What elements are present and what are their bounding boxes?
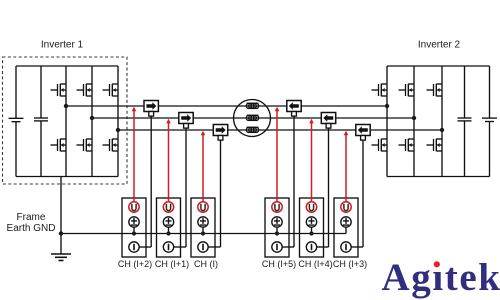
channel box CH (I+2) — [122, 198, 151, 257]
wire: CH (I+5) I terminal to probe lead — [282, 246, 294, 248]
wire: CH (I+1) I terminal to probe lead — [174, 246, 186, 248]
terminal +/- of CH (I+3) — [341, 217, 351, 227]
transistor Q1 (inv1 U high) — [51, 84, 67, 97]
terminal I of CH (I) — [198, 242, 208, 252]
voltage lead U of CH (I+3) to phase W — [344, 131, 349, 202]
wire: inverter 1 phase leg W — [117, 66, 119, 177]
junction: inv1 leg V to phase line — [90, 116, 94, 120]
svg-text:CH (I+4): CH (I+4) — [298, 259, 332, 269]
transistor Q4 (inv1 U low) — [51, 139, 67, 152]
wire: inverter 1 top DC rail — [16, 65, 118, 67]
wire: probe 5 lead down to CH (I+4) I input — [328, 123, 330, 247]
wire: CH (I+2) I terminal to probe lead — [139, 246, 151, 248]
junction: inv1 leg W to phase line — [116, 128, 120, 132]
channel box CH (I+4) — [300, 198, 329, 257]
dashed enclosure around Inverter 1 — [3, 57, 128, 184]
wire: CH (I+5) +/- to GND bus — [276, 227, 278, 233]
wire: inverter 1 chassis to frame earth — [60, 177, 62, 255]
junction: CH (I+1) on GND bus — [166, 231, 170, 235]
transistor Q12 (inv2 W low) — [427, 139, 443, 152]
wire: CH (I+3) +/- to GND bus — [345, 227, 347, 233]
transistor Q9 (inv2 W high) — [427, 84, 443, 97]
battery B1 (inverter 1 DC source leg) — [15, 66, 17, 118]
junction: frame earth tap — [59, 231, 63, 235]
ground (frame earth) — [51, 254, 71, 261]
wire: probe 3 lead down to CH (I) I input — [220, 135, 222, 247]
voltage lead U of CH (I+5) to phase U — [275, 107, 280, 202]
transistor Q3 (inv1 W high) — [103, 84, 119, 97]
voltage lead U of CH (I+2) to phase U — [132, 107, 137, 202]
wire: inverter 1 bottom DC rail — [16, 176, 118, 178]
wire: probe 2 lead down to CH (I+1) I input — [185, 123, 187, 247]
current probe P3 on phase W — [213, 125, 227, 141]
terminal I of CH (I+5) — [272, 242, 282, 252]
junction: CH (I+4) on GND bus — [309, 231, 313, 235]
battery B2 (inverter 2 DC source leg) — [489, 66, 491, 118]
transistor Q10 (inv2 U low) — [372, 139, 388, 152]
transistor Q5 (inv1 V low) — [77, 139, 93, 152]
svg-text:CH (I+2): CH (I+2) — [118, 259, 152, 269]
wire: CH (I+2) +/- to GND bus — [133, 227, 135, 233]
wire: CH (I) +/- to GND bus — [202, 227, 204, 233]
winding: phase V — [246, 115, 258, 120]
wire: CH (I) I terminal to probe lead — [208, 246, 220, 248]
svg-text:Inverter 1: Inverter 1 — [41, 40, 84, 51]
junction: inv2 leg U to phase line — [385, 104, 389, 108]
wire: phase line V (middle) — [92, 117, 414, 119]
terminal U of CH (I+1) — [163, 202, 173, 212]
current probe P4 on phase U (inv2 side) — [287, 101, 301, 117]
wire: inverter 2 phase leg U — [386, 66, 388, 177]
winding: phase U — [246, 103, 258, 108]
winding: phase W — [246, 127, 258, 132]
wire: inverter 2 phase leg V — [413, 66, 415, 177]
wire: phase line U (top) — [66, 105, 387, 107]
terminal U of CH (I+3) — [341, 202, 351, 212]
channel box CH (I+3) — [334, 198, 363, 257]
terminal +/- of CH (I+1) — [163, 217, 173, 227]
wire: probe 6 lead down to CH (I+3) I input — [362, 135, 364, 247]
wire: phase line W (bottom) — [118, 129, 442, 131]
terminal +/- of CH (I+5) — [272, 217, 282, 227]
wire: inverter 2 top DC rail — [387, 65, 490, 67]
logo Agitek — [382, 256, 500, 299]
wire: inverter 2 phase leg W — [441, 66, 443, 177]
terminal I of CH (I+4) — [306, 242, 316, 252]
channel box CH (I+1) — [157, 198, 187, 257]
motor M (3-phase) — [234, 100, 271, 137]
junction: CH (I) on GND bus — [201, 231, 205, 235]
terminal U of CH (I+2) — [129, 202, 139, 212]
current probe P2 on phase V — [179, 113, 193, 129]
svg-text:Inverter 2: Inverter 2 — [418, 40, 461, 51]
svg-text:CH (I+1): CH (I+1) — [155, 259, 189, 269]
transistor Q8 (inv2 V high) — [399, 84, 415, 97]
current probe P5 on phase V (inv2 side) — [321, 113, 335, 129]
voltage lead U of CH (I+1) to phase V — [166, 119, 171, 202]
junction: CH (I+5) on GND bus — [275, 231, 279, 235]
wire: frame earth GND bus — [61, 233, 346, 235]
capacitor C1 (inverter 1 DC link) — [40, 66, 42, 118]
transistor Q6 (inv1 W low) — [103, 139, 119, 152]
wire: CH (I+1) +/- to GND bus — [168, 227, 170, 233]
current probe P1 on phase U — [144, 101, 158, 117]
terminal I of CH (I+1) — [163, 242, 173, 252]
wire: inverter 1 phase leg V — [91, 66, 93, 177]
svg-text:Earth GND: Earth GND — [7, 223, 56, 234]
svg-text:CH (I): CH (I) — [194, 259, 218, 269]
voltage lead U of CH (I+4) to phase V — [309, 119, 314, 202]
svg-text:CH (I+5): CH (I+5) — [262, 259, 296, 269]
svg-text:Agıtek: Agıtek — [382, 256, 500, 299]
wire: CH (I+3) I terminal to probe lead — [351, 246, 363, 248]
transistor Q11 (inv2 V low) — [399, 139, 415, 152]
channel box CH (I) — [191, 198, 221, 257]
voltage lead U of CH (I) to phase W — [201, 131, 206, 202]
terminal +/- of CH (I) — [198, 217, 208, 227]
wire: probe 4 lead down to CH (I+5) I input — [293, 111, 295, 247]
svg-text:CH (I+3): CH (I+3) — [333, 259, 367, 269]
capacitor C2 (inverter 2 DC link) — [464, 66, 466, 118]
svg-text:Frame: Frame — [17, 212, 46, 223]
wire: inverter 1 phase leg U — [65, 66, 67, 177]
transistor Q2 (inv1 V high) — [77, 84, 93, 97]
junction: inv1 leg U to phase line — [64, 104, 68, 108]
channel box CH (I+5) — [265, 198, 294, 257]
terminal I of CH (I+2) — [129, 242, 139, 252]
transistor Q7 (inv2 U high) — [372, 84, 388, 97]
terminal U of CH (I+5) — [272, 202, 282, 212]
wire: CH (I+4) +/- to GND bus — [311, 227, 313, 233]
terminal +/- of CH (I+2) — [129, 217, 139, 227]
junction: inv2 leg W to phase line — [440, 128, 444, 132]
terminal U of CH (I+4) — [306, 202, 316, 212]
wire: inverter 2 bottom DC rail — [387, 176, 490, 178]
junction: CH (I+2) on GND bus — [132, 231, 136, 235]
junction: inv2 leg V to phase line — [412, 116, 416, 120]
terminal I of CH (I+3) — [341, 242, 351, 252]
wire: CH (I+4) I terminal to probe lead — [317, 246, 329, 248]
terminal +/- of CH (I+4) — [306, 217, 316, 227]
terminal U of CH (I) — [198, 202, 208, 212]
current probe P6 on phase W (inv2 side) — [356, 125, 370, 141]
wire: probe 1 lead down to CH (I+2) I input — [150, 111, 152, 247]
